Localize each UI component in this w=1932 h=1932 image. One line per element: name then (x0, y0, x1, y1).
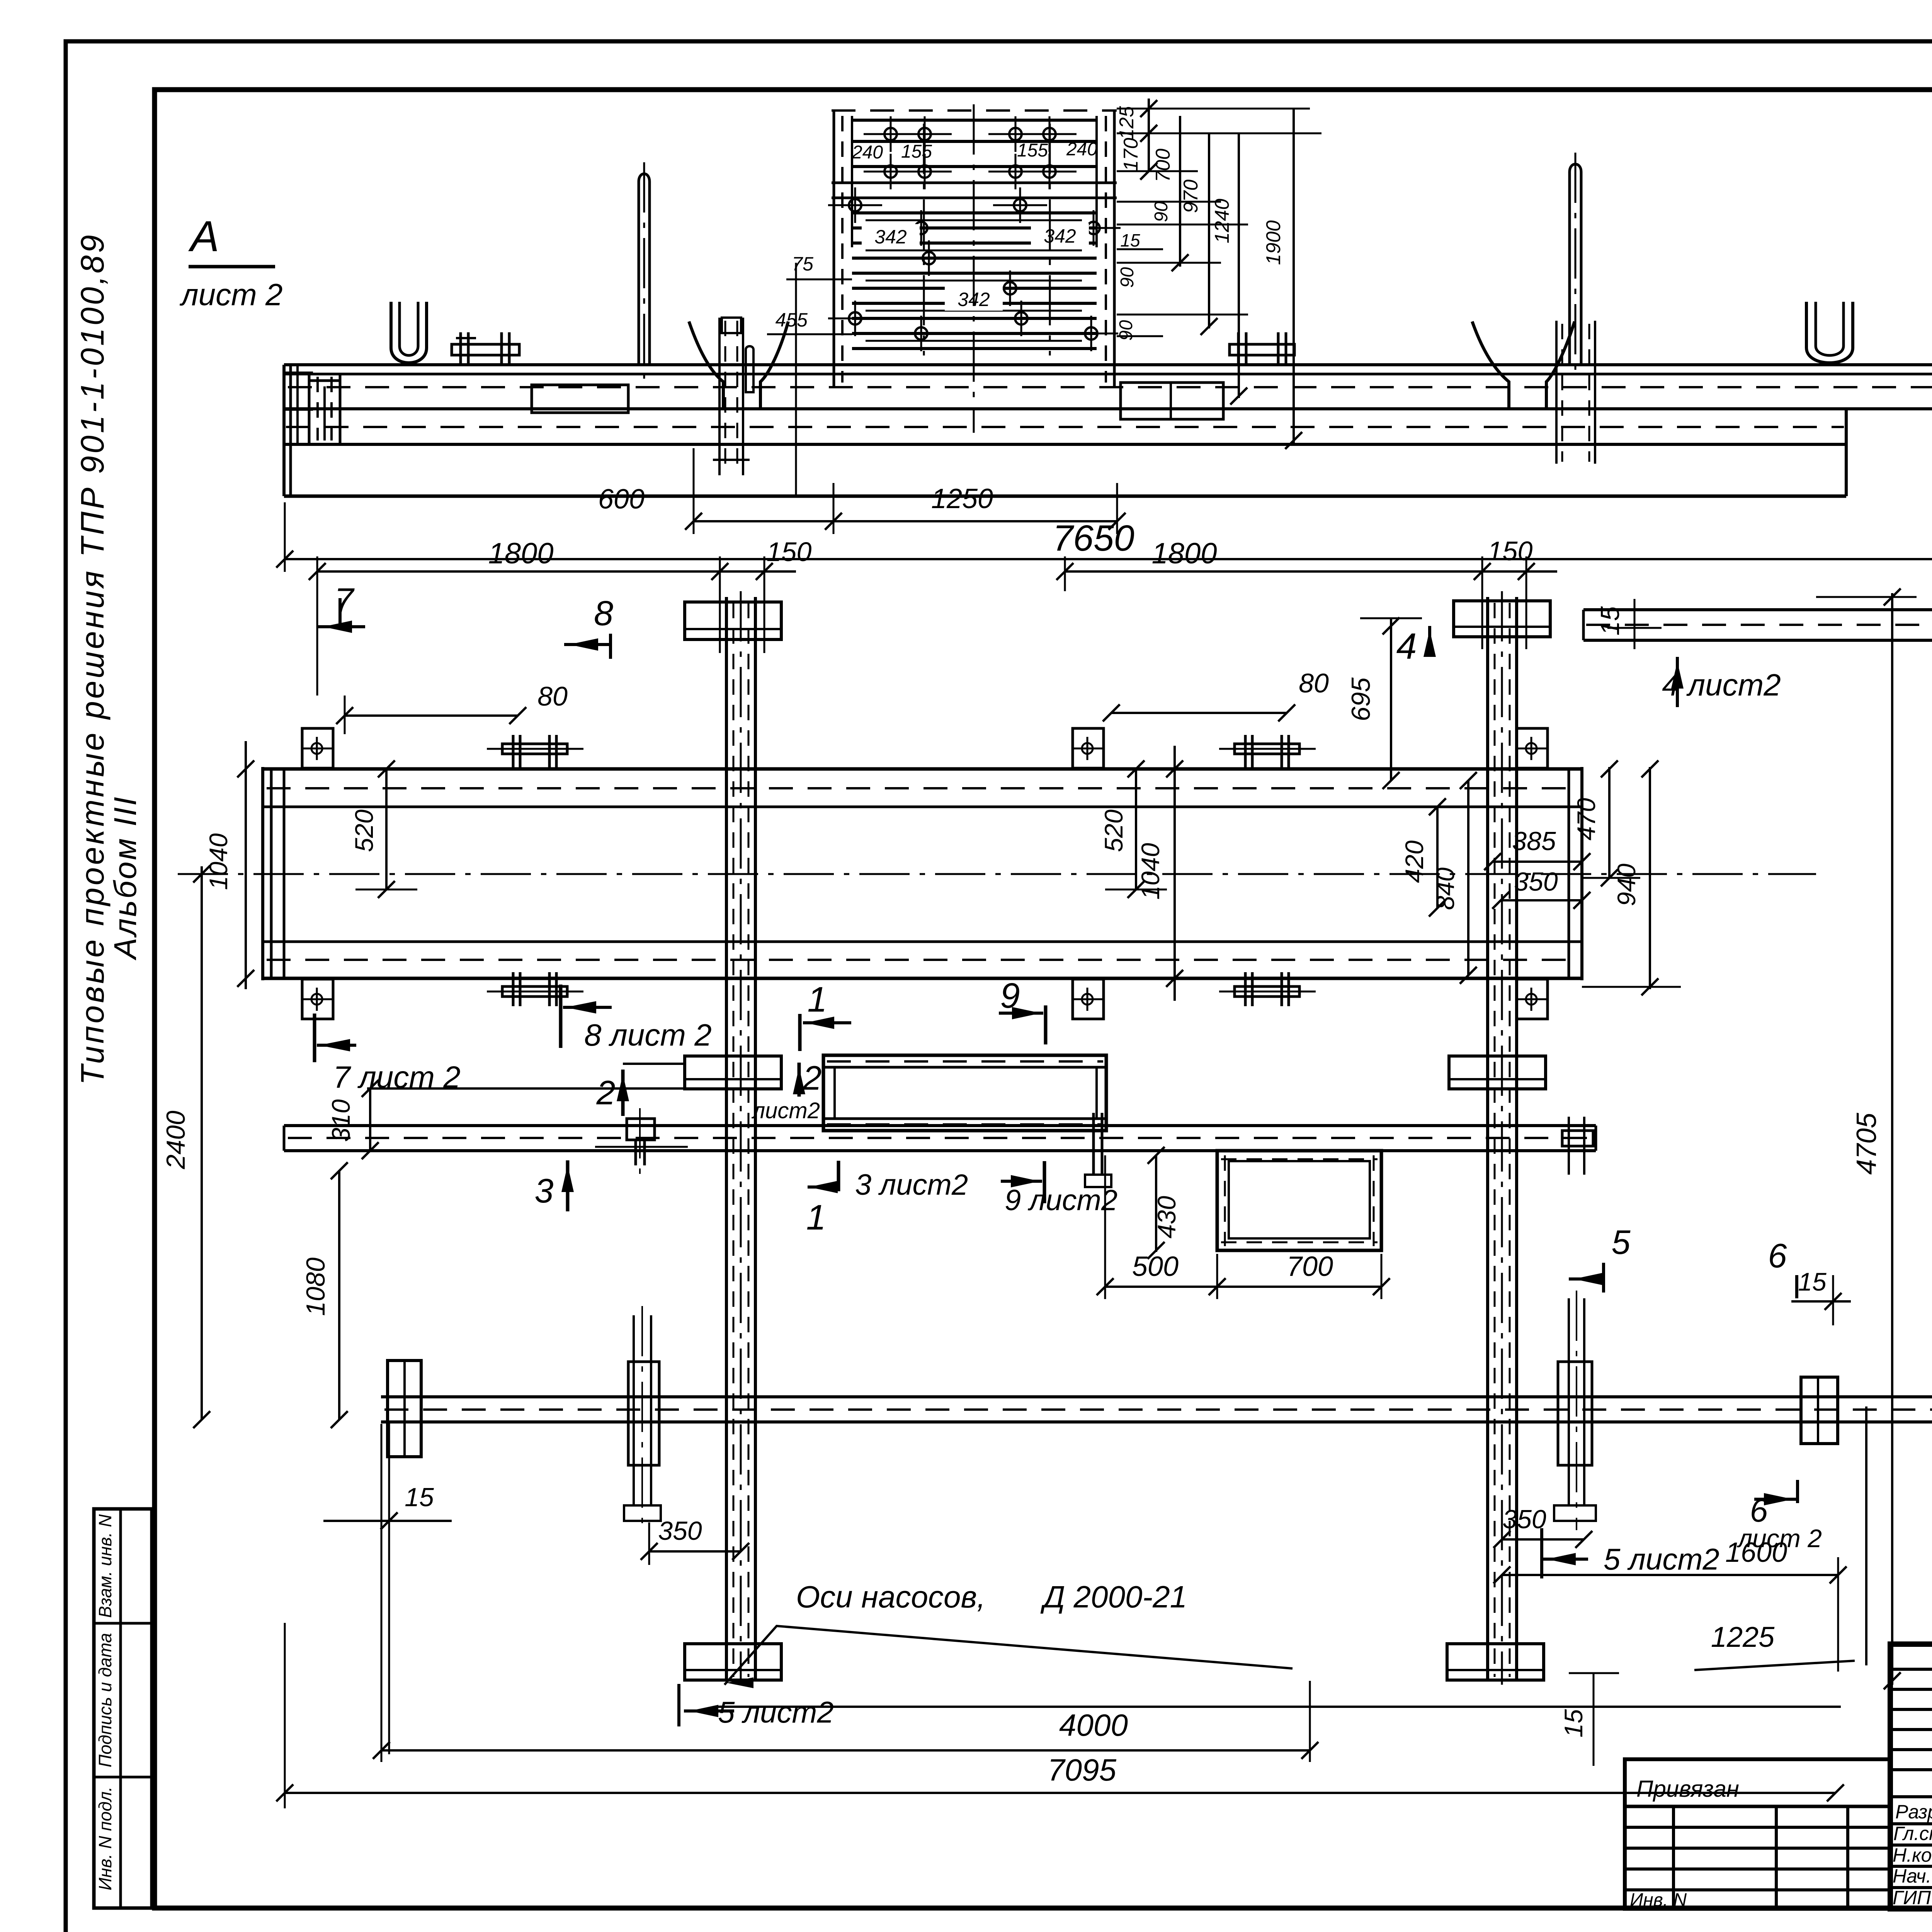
svg-text:Гл.спец: Гл.спец (1893, 1823, 1932, 1844)
svg-text:2400: 2400 (161, 1111, 190, 1169)
svg-text:520: 520 (1099, 810, 1128, 852)
dim 350 beam (1501, 899, 1582, 901)
svg-text:1600: 1600 (1725, 1537, 1787, 1568)
dim 520 left (385, 769, 388, 889)
svg-text:15: 15 (1595, 606, 1625, 636)
dim 940 right (1649, 767, 1651, 989)
marker 8 list 2 (559, 985, 563, 1048)
funnel saddle 1 (689, 321, 788, 409)
svg-text:170: 170 (1120, 138, 1142, 172)
funnel saddle 2 (1472, 321, 1575, 409)
dim 350 right clamp (1502, 1538, 1584, 1541)
svg-text:350: 350 (1514, 867, 1558, 896)
svg-text:ГИП: ГИП (1893, 1887, 1931, 1908)
svg-text:8: 8 (594, 594, 613, 633)
hatch frame (1217, 1151, 1381, 1250)
elevation total dim 7650 (285, 558, 1932, 560)
svg-text:80: 80 (537, 681, 568, 711)
svg-text:Разраб.: Разраб. (1895, 1801, 1932, 1823)
ladder centerlines (973, 104, 975, 433)
bolt pair assemblies on beam (502, 744, 567, 754)
ladder right dim stack (1148, 99, 1150, 172)
dim 80 left (345, 714, 518, 717)
svg-text:500: 500 (1132, 1251, 1179, 1282)
bolt pair 2 (1230, 344, 1294, 355)
svg-text:350: 350 (1502, 1505, 1546, 1534)
svg-text:1800: 1800 (1151, 537, 1217, 570)
channel post 2 in elevation (1555, 321, 1558, 464)
bolt pair 1 (452, 344, 519, 355)
svg-text:9 лист2: 9 лист2 (1005, 1184, 1117, 1217)
svg-text:342: 342 (1044, 225, 1076, 247)
baseline 4417 (716, 1706, 1841, 1708)
svg-text:470: 470 (1572, 798, 1600, 840)
beam centerline (178, 873, 1816, 875)
ladder lower block (832, 197, 1117, 199)
svg-text:лист 2: лист 2 (180, 277, 283, 312)
channel post 1 in elevation (718, 318, 721, 475)
svg-text:342: 342 (874, 226, 907, 248)
marker 3 list2 (808, 1185, 839, 1189)
svg-text:Нач.отд.: Нач.отд. (1893, 1865, 1932, 1887)
bottom rail (381, 1395, 1932, 1398)
mast 2 (1570, 164, 1581, 365)
dim 695 (1390, 618, 1392, 781)
svg-text:385: 385 (1512, 827, 1556, 856)
marker 5 list2 left (677, 1684, 680, 1726)
elevation base channel (284, 443, 1846, 446)
svg-text:8 лист 2: 8 лист 2 (584, 1018, 712, 1052)
left channel bottom plate (685, 1644, 781, 1680)
left vertical channel (725, 597, 728, 1681)
bolt on second rail right end (1562, 1131, 1593, 1146)
svg-text:А: А (188, 212, 219, 260)
svg-text:350: 350 (658, 1516, 702, 1546)
ladder inner dim texts (862, 224, 920, 248)
dim 1600 (1502, 1574, 1838, 1576)
svg-text:125: 125 (1116, 106, 1138, 140)
svg-text:1225: 1225 (1711, 1621, 1775, 1653)
svg-text:90: 90 (1117, 267, 1138, 288)
left channel mid plate (685, 1056, 781, 1089)
svg-text:2: 2 (803, 1059, 822, 1097)
dim 430 (1155, 1155, 1157, 1252)
U-bolt clamp 1 (391, 302, 427, 363)
dim 840 (1467, 781, 1469, 975)
svg-text:1: 1 (806, 1198, 826, 1237)
marker 6 list2 (1796, 1480, 1799, 1503)
svg-text:Инв. N: Инв. N (1630, 1890, 1687, 1910)
svg-text:1040: 1040 (204, 833, 233, 890)
svg-text:80: 80 (1299, 668, 1329, 698)
svg-text:155: 155 (901, 141, 932, 162)
privyazan table (1625, 1759, 1889, 1909)
elevation main rail (284, 363, 1932, 366)
svg-text:4: 4 (1396, 626, 1417, 667)
U-bolt clamp 2 (1806, 302, 1853, 363)
svg-text:1800: 1800 (488, 537, 553, 570)
dim 4705 (1891, 593, 1893, 1685)
left I-beam end (289, 365, 292, 496)
svg-text:Д 2000-21: Д 2000-21 (1040, 1580, 1187, 1614)
right channel top plate (1454, 601, 1550, 637)
marker 7 list 2 (313, 1014, 316, 1062)
dim 7095 (285, 1792, 1835, 1794)
pedestal (532, 385, 628, 413)
bottom rail right end plate (1801, 1377, 1838, 1444)
dim 1040 mid (1173, 746, 1176, 1001)
svg-text:940: 940 (1612, 864, 1641, 906)
dim 520 mid (1135, 769, 1137, 889)
dim 4000 (381, 1749, 1310, 1752)
svg-text:4705: 4705 (1851, 1112, 1882, 1175)
dim 310 (369, 1088, 371, 1151)
svg-text:1: 1 (807, 980, 827, 1019)
title block (1890, 1644, 1932, 1909)
svg-text:1900: 1900 (1262, 220, 1285, 265)
svg-text:5 лист2: 5 лист2 (1604, 1542, 1719, 1576)
marker 5 list2 right (1540, 1528, 1543, 1578)
left margin attribute strip (94, 1509, 152, 1908)
svg-text:4000: 4000 (1059, 1708, 1128, 1742)
second rail (284, 1124, 1596, 1127)
svg-text:15: 15 (405, 1483, 434, 1512)
bolt on second rail left (627, 1119, 655, 1140)
svg-text:Оси насосов,: Оси насосов, (796, 1580, 985, 1614)
svg-text:240: 240 (852, 142, 883, 163)
svg-text:15: 15 (1798, 1267, 1827, 1296)
svg-text:310: 310 (327, 1099, 355, 1142)
bolt plates on beam (302, 728, 333, 768)
left clamp assembly (628, 1362, 659, 1465)
svg-text:Н.контр.: Н.контр. (1893, 1844, 1932, 1866)
svg-text:Типовые проектные решения ТПР: Типовые проектные решения ТПР 901-1-0100… (74, 233, 111, 1085)
svg-text:1040: 1040 (1136, 843, 1165, 900)
bolt on second rail mid (1092, 1113, 1095, 1175)
right vertical channel (1486, 597, 1489, 1681)
svg-text:6: 6 (1750, 1492, 1768, 1529)
svg-text:7095: 7095 (1048, 1753, 1116, 1787)
svg-text:5: 5 (1612, 1223, 1631, 1261)
svg-text:90: 90 (1151, 201, 1172, 222)
svg-text:1240: 1240 (1211, 199, 1233, 243)
svg-text:7650: 7650 (1053, 518, 1134, 559)
svg-text:Альбом III: Альбом III (108, 795, 143, 961)
svg-text:90: 90 (1116, 320, 1136, 341)
dim 1040 left (245, 741, 247, 989)
dim 2400 (201, 866, 203, 1420)
left channel top plate (685, 602, 781, 639)
ladder extra slat lines (866, 219, 1082, 221)
svg-text:1080: 1080 (301, 1257, 330, 1316)
svg-text:600: 600 (598, 484, 645, 515)
svg-text:лист2: лист2 (751, 1098, 820, 1123)
svg-text:4 лист2: 4 лист2 (1662, 668, 1781, 702)
dim 15 bottom right (1593, 1673, 1595, 1766)
svg-text:840: 840 (1431, 867, 1459, 910)
svg-text:455: 455 (776, 309, 808, 331)
right channel mid plate (1449, 1056, 1546, 1089)
svg-text:7: 7 (334, 582, 355, 620)
ladder upper block (832, 109, 1117, 112)
dim 15 bottom left (388, 1422, 390, 1754)
dim 470 (1608, 767, 1611, 878)
svg-text:420: 420 (1400, 840, 1429, 883)
dims 500 700 (1105, 1286, 1381, 1288)
right clamp assembly (1558, 1362, 1592, 1465)
svg-text:700: 700 (1152, 149, 1174, 182)
svg-text:700: 700 (1287, 1251, 1333, 1282)
pedestal 2 (1121, 383, 1223, 419)
svg-text:5 лист2: 5 лист2 (718, 1695, 834, 1729)
svg-text:Подпись и дата: Подпись и дата (95, 1633, 115, 1767)
svg-text:2: 2 (596, 1073, 616, 1112)
dim 15 top right (1832, 1275, 1834, 1325)
svg-text:15: 15 (1120, 230, 1140, 250)
marker 9 list2 (1043, 1161, 1046, 1203)
svg-text:Взам. инв. N: Взам. инв. N (95, 1514, 115, 1618)
right channel bottom plate (1447, 1644, 1544, 1680)
plan main beam (263, 767, 1582, 771)
svg-text:3: 3 (535, 1172, 554, 1210)
elevation bottom dims 600 1250 (694, 520, 1117, 522)
svg-text:430: 430 (1152, 1196, 1181, 1238)
svg-text:155: 155 (1017, 140, 1048, 161)
svg-text:Инв. N подл.: Инв. N подл. (95, 1787, 115, 1891)
marker 4 list2 (1676, 657, 1679, 707)
svg-text:15: 15 (1559, 1709, 1588, 1738)
svg-text:240: 240 (1066, 139, 1097, 160)
P bracket (308, 373, 311, 443)
svg-text:3 лист2: 3 лист2 (855, 1168, 968, 1201)
svg-text:695: 695 (1346, 677, 1376, 721)
svg-text:150: 150 (1488, 536, 1533, 566)
dim 420 (1436, 807, 1439, 908)
ladder bolt circles (849, 199, 861, 211)
svg-text:1250: 1250 (931, 483, 993, 514)
mast 1 (639, 174, 650, 365)
bottom rail left end plate (388, 1361, 421, 1457)
dim 80 right (1111, 712, 1287, 714)
dim 1080 (338, 1171, 340, 1420)
dim 350 left clamp (649, 1550, 741, 1553)
dim 385 (1493, 861, 1582, 863)
lower right rail segment (1583, 608, 1932, 611)
svg-text:Привязан: Привязан (1636, 1776, 1739, 1802)
top dim chain 1800 150 (317, 570, 796, 573)
svg-text:520: 520 (350, 810, 378, 852)
svg-text:6: 6 (1768, 1236, 1787, 1275)
svg-text:150: 150 (767, 537, 812, 567)
svg-text:970: 970 (1180, 180, 1202, 213)
channel piece 9 (823, 1055, 1106, 1131)
